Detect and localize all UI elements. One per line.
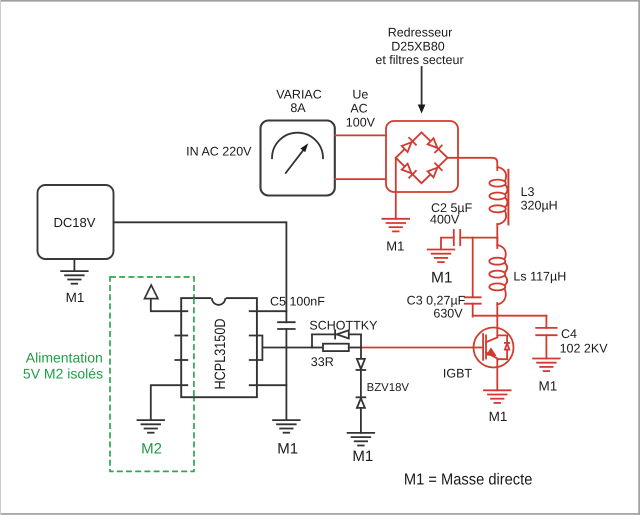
wire node to C2 (460, 237, 497, 239)
schottky diode branch (312, 330, 361, 347)
svg-text:102 2KV: 102 2KV (560, 342, 609, 356)
label Ue AC 100V (346, 87, 376, 129)
gate wire red (361, 347, 474, 349)
inductor Ls 117uH (489, 238, 507, 316)
label L3 320uH (521, 185, 558, 213)
bridge diamond (396, 132, 448, 183)
svg-text:AC: AC (350, 102, 367, 116)
dc supply box DC18V (38, 185, 114, 259)
label C3 0,27uF 630V (407, 294, 466, 321)
pin 4 wire to M2 ground (151, 385, 188, 420)
svg-text:400V: 400V (430, 213, 460, 227)
wire L3 to node (496, 224, 498, 245)
meter arc (272, 133, 323, 158)
ground M1 DC18V (61, 271, 88, 284)
svg-text:et filtres secteur: et filtres secteur (375, 53, 463, 67)
svg-text:C3 0,27µF: C3 0,27µF (407, 294, 466, 308)
svg-text:M1: M1 (277, 441, 298, 458)
bridge diode D1 (top-left) (401, 138, 416, 153)
svg-text:HCPL3150D: HCPL3150D (212, 318, 229, 389)
wire DC18V to C5 node (114, 222, 287, 322)
capacitor C5 100nF (278, 322, 295, 329)
svg-text:M1: M1 (386, 239, 404, 254)
bridge diode D2 (top-right) (427, 138, 442, 153)
svg-text:5V M2 isolés: 5V M2 isolés (23, 366, 103, 382)
optocoupler U1 HCPL3150D (181, 298, 257, 397)
svg-text:320µH: 320µH (521, 199, 558, 213)
capacitor C3 0,27uF 630V (465, 297, 481, 303)
svg-text:SCHOTTKY: SCHOTTKY (309, 319, 378, 333)
green dashed isolation box (110, 277, 194, 471)
ground M1 C5 (273, 420, 300, 433)
svg-text:M1: M1 (431, 270, 453, 287)
svg-text:33R: 33R (311, 355, 334, 369)
wire C3 to bus (472, 304, 474, 317)
transistor IGBT (474, 328, 514, 368)
pin 8 wire to C5 node (250, 310, 287, 312)
wire node to C3 (472, 238, 474, 298)
ground M1 IGBT (484, 390, 511, 403)
ground M1 rectifier (383, 219, 410, 232)
capacitor C2 5uF 400V (454, 230, 460, 245)
bus wire C3 to C4 (473, 315, 547, 317)
ground M2 (138, 420, 165, 433)
zener diode BZV18V top (357, 359, 366, 397)
bridge diode D3 (bottom-left) (401, 163, 416, 178)
svg-text:100V: 100V (346, 116, 376, 130)
svg-text:VARIAC: VARIAC (276, 88, 322, 102)
svg-text:630V: 630V (433, 307, 463, 321)
wire rectifier to ground (395, 158, 397, 219)
svg-text:Alimentation: Alimentation (26, 350, 103, 366)
svg-text:Redresseur: Redresseur (388, 25, 453, 39)
wire variac to rectifier top (335, 134, 386, 136)
bridge diode D4 (bottom-right) (427, 163, 442, 178)
wire IGBT emitter to ground (496, 359, 498, 391)
svg-text:L3: L3 (521, 185, 535, 199)
svg-text:8A: 8A (290, 101, 306, 115)
page border frame (0, 0, 640, 2)
svg-text:BZV18V: BZV18V (367, 382, 410, 394)
label Alimentation 5V M2 isoles (23, 350, 103, 382)
wire C2 to ground (441, 238, 454, 250)
svg-text:C4: C4 (561, 327, 577, 341)
svg-text:Ls 117µH: Ls 117µH (513, 270, 566, 284)
wire rectifier to L3 (448, 158, 498, 170)
svg-text:M2: M2 (141, 441, 162, 458)
svg-text:Ue: Ue (352, 87, 368, 101)
resistor 33R (312, 334, 361, 359)
wire variac to rectifier bottom (335, 178, 386, 180)
label C4 102 2KV (560, 327, 609, 356)
svg-text:M1: M1 (539, 378, 558, 393)
svg-text:M1 = Masse directe: M1 = Masse directe (404, 472, 533, 489)
meter needle (286, 143, 309, 173)
svg-text:IN AC 220V: IN AC 220V (186, 145, 252, 159)
variac box U2 (261, 121, 335, 196)
rectifier box (386, 121, 458, 192)
label C2 5uF 400V (430, 201, 473, 227)
pin 5 wire to M1 (250, 384, 287, 386)
svg-text:IGBT: IGBT (443, 367, 473, 381)
output wire from bracket (262, 347, 312, 349)
supply arrow (145, 285, 158, 299)
svg-text:DC18V: DC18V (54, 215, 96, 230)
title text Redresseur D25XB80 et filtres secteur (375, 25, 463, 67)
pin 7-6 output bracket (250, 336, 263, 361)
ground M1 C4 (533, 359, 560, 372)
wire bus to IGBT collector (496, 316, 498, 338)
svg-text:M1: M1 (352, 448, 373, 465)
pin 1 wire to supply arrow (151, 299, 188, 312)
svg-text:D25XB80: D25XB80 (391, 39, 445, 53)
wire DC18V to ground (73, 259, 75, 271)
svg-text:M1: M1 (489, 409, 508, 424)
pin 2 stub (175, 335, 187, 337)
green dashed line over IC (193, 298, 195, 397)
wire C5 to ground (285, 329, 287, 420)
pin 3 stub (175, 359, 187, 361)
label VARIAC 8A (276, 88, 322, 115)
svg-text:M1: M1 (66, 290, 85, 305)
inductor L3 320uH (489, 167, 508, 225)
IC notch (211, 296, 226, 300)
ground M1 C2 (428, 250, 455, 263)
zener diode BZV18V bottom (357, 397, 366, 433)
arrow from title to rectifier (418, 67, 426, 114)
svg-text:C5 100nF: C5 100nF (270, 295, 325, 309)
capacitor C4 102 2KV (536, 316, 556, 359)
ground M1 BZV (348, 433, 375, 446)
